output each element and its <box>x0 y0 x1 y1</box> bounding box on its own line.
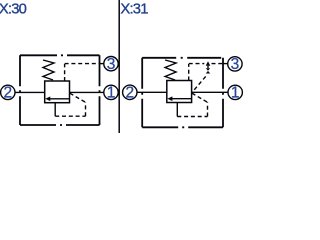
wire port2 to body (V30) <box>15 91 45 93</box>
pilot drain dashed line to port3 left part (V31) <box>189 63 205 65</box>
wire stub to port3 (V30) <box>100 63 104 65</box>
drain line from body bottom (V30) <box>54 103 56 117</box>
valve V31 spring <box>165 60 176 80</box>
drain line from body bottom (V31) <box>176 103 178 117</box>
port 1 (V31) <box>228 85 242 99</box>
pilot drain dashed riser (V31) <box>188 64 190 81</box>
port 3 (V31) <box>228 57 242 71</box>
port 3 (V30) <box>104 57 118 71</box>
port 2 (V30) <box>1 85 15 99</box>
pilot dashed diagonal to outlet (V30) <box>70 93 86 102</box>
svg-text:X:31: X:31 <box>120 1 148 17</box>
pilot dashed diagonal to outlet (V31) <box>192 93 208 102</box>
pilot check valve spring (V31) <box>206 68 210 70</box>
pilot drain dashed line to port3 (V30) <box>65 63 100 65</box>
pilot dashed bottom run (V31) <box>177 116 207 118</box>
divider line between schematic sheets <box>118 0 120 133</box>
pilot dashed bottom run (V30) <box>55 115 85 117</box>
pilot dashed riser right (V31) <box>207 102 209 116</box>
svg-text:3: 3 <box>231 56 240 73</box>
svg-text:2: 2 <box>3 85 12 102</box>
svg-text:1: 1 <box>107 85 116 102</box>
pilot drain dashed riser (V30) <box>64 64 66 81</box>
valve V30 flow arrow <box>50 98 70 100</box>
valve V30 spring <box>43 60 54 80</box>
pilot drain dashed line to port3 right part (V31) <box>212 63 224 65</box>
wire port2 to body (V31) <box>137 91 167 93</box>
pilot dashed riser right (V30) <box>85 102 87 116</box>
valve V30 enclosure (dash-dot boundary) <box>20 55 100 125</box>
svg-text:2: 2 <box>125 85 134 102</box>
svg-text:3: 3 <box>107 56 116 73</box>
svg-text:1: 1 <box>231 85 240 102</box>
pilot dashed diagonal check to outlet (V31) <box>192 76 206 92</box>
port 2 (V31) <box>123 85 137 99</box>
wire body to port1 (V30) <box>70 91 104 93</box>
wire stub to port3 (V31) <box>223 63 228 65</box>
valve V30 body <box>45 81 70 103</box>
pilot check valve poppet arrow (V31) <box>206 61 211 66</box>
valve V31 enclosure (dash-dot boundary) <box>142 58 223 128</box>
valve V31 body <box>167 81 192 103</box>
svg-text:X:30: X:30 <box>0 1 27 17</box>
wire body to port1 (V31) <box>192 91 228 93</box>
port 1 (V30) <box>104 85 118 99</box>
valve V31 flow arrow <box>172 98 192 100</box>
